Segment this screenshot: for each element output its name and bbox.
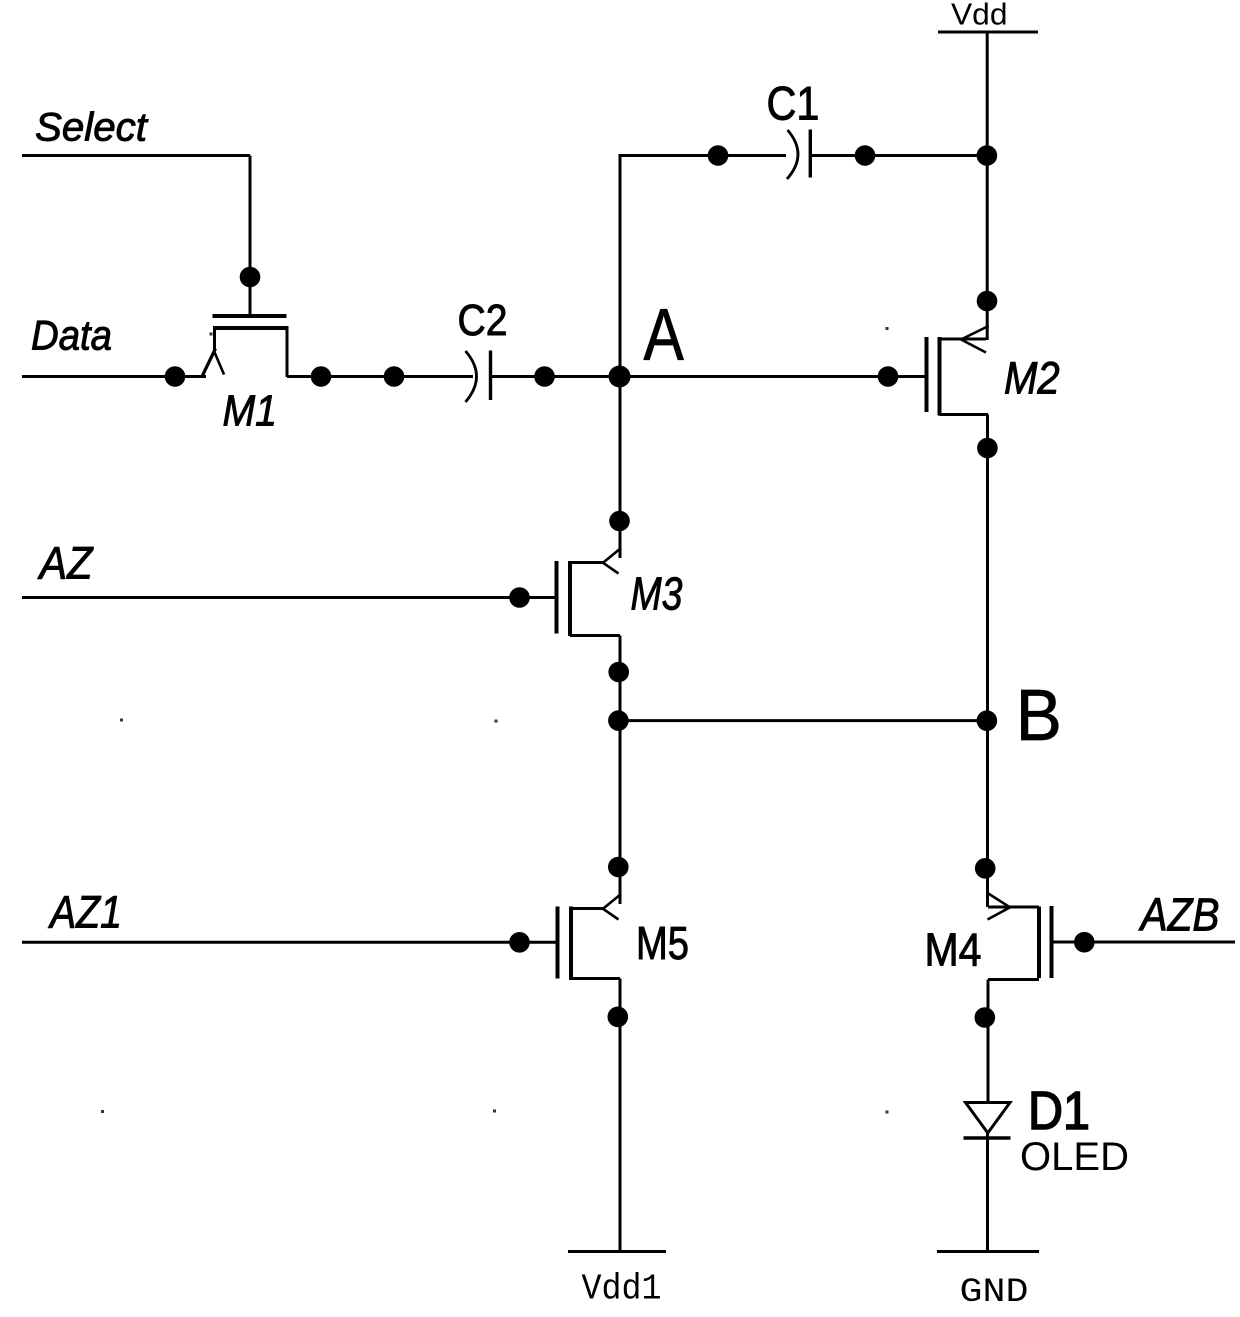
speck noise 4 [493,1110,496,1113]
svg-text:Select: Select [35,106,149,150]
speck noise 5 [886,1111,889,1114]
svg-text:M3: M3 [631,568,683,620]
svg-text:AZB: AZB [1138,889,1220,941]
transistor M1 [203,316,289,377]
wire right column M4 to D1 [987,980,990,1103]
wire Select horizontal [22,154,250,157]
junction dot node A [609,366,631,388]
svg-text:M2: M2 [1004,353,1060,404]
junction dot C1 right [855,145,876,166]
junction dot AZ1/M5 gate [509,932,530,953]
junction dot M3 drain [609,511,630,532]
wire Vdd column M2 to M4 [986,415,989,908]
junction dot node B right [977,710,998,731]
wire left column M5 to Vdd1 [619,979,622,1252]
junction dot C1/Vdd [977,145,998,166]
junction dot M2 gate [878,366,899,387]
wire AZ1 horizontal [22,941,556,944]
wire AZ horizontal [22,596,555,599]
svg-text:C2: C2 [458,296,508,345]
svg-text:M4: M4 [925,924,982,976]
wire C1 top right segment to Vdd column [812,154,987,157]
wire C1 top left segment from node A column [619,154,787,157]
capacitor C2 [465,351,491,403]
diode D1 OLED [964,1103,1011,1139]
transistor M2 [927,326,989,416]
wire node B horizontal [620,719,987,722]
junction dot M2 drain [977,291,998,312]
junction dot Data 3 [384,366,405,387]
junction dot C1 left [708,145,729,166]
junction dot after C2 [534,366,555,387]
wire AZB horizontal [1052,941,1235,944]
power Vdd1 bar [568,1250,666,1253]
wire Data from C2 to M2 gate through node A [492,375,925,378]
svg-text:A: A [644,295,685,376]
speck noise 2 [495,720,498,723]
wire left column M3 to M5 [619,636,622,905]
wire Vdd column top [986,32,989,340]
svg-text:B: B [1016,675,1062,756]
power Vdd rail bar [938,31,1038,34]
speck noise 7 [210,333,213,336]
svg-text:GND: GND [960,1273,1029,1312]
capacitor C1 [787,130,810,180]
svg-text:AZ1: AZ1 [47,887,122,938]
wire Data from M1 drain to C2 [287,375,472,378]
junction dot M5 drain [608,857,629,878]
wire right column D1 to GND [986,1133,989,1252]
junction dot M3 source [608,662,629,683]
transistor M4 [988,893,1052,980]
junction dot M4 drain [975,858,996,879]
svg-text:AZ: AZ [37,538,94,589]
junction dot Select/M1 gate [240,267,261,288]
speck noise 1 [120,719,123,722]
svg-text:Vdd1: Vdd1 [582,1269,662,1310]
svg-text:M5: M5 [636,917,689,969]
svg-text:Vdd: Vdd [951,0,1008,32]
transistor M5 [558,894,622,980]
junction dot Data 2 [311,366,332,387]
svg-text:Data: Data [31,312,112,359]
junction dot Data 1 [165,366,186,387]
wire Data left segment [22,375,206,378]
speck noise 3 [101,1110,104,1113]
wire Select vertical to M1 gate [249,156,252,317]
transistor M3 [557,548,622,636]
svg-text:OLED: OLED [1020,1135,1129,1179]
svg-text:D1: D1 [1028,1081,1090,1141]
svg-text:C1: C1 [767,77,820,130]
speck noise 6 [886,327,889,330]
svg-text:M1: M1 [223,387,278,436]
junction dot M5 source [608,1007,629,1028]
wire left column node A down to M3 [619,154,622,558]
junction dot node B left [608,710,629,731]
junction dot M4 source [975,1007,996,1028]
ground GND bar [937,1250,1039,1253]
junction dot M4 gate / AZB [1074,932,1095,953]
junction dot M2 source [977,438,998,459]
junction dot AZ/M3 gate [509,587,530,608]
